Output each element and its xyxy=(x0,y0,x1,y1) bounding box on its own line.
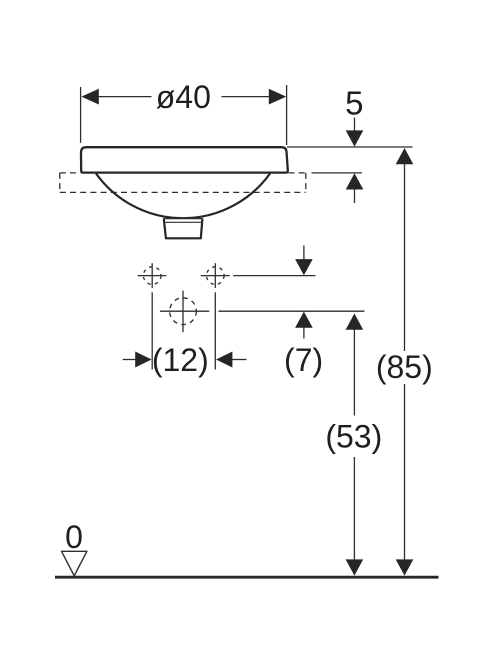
reference line at faucet hole axis xyxy=(233,275,315,277)
datum triangle xyxy=(62,551,87,576)
basin bowl xyxy=(96,174,270,219)
dimension line (85) upper segment with up arrow xyxy=(396,148,414,351)
extension line right of dimension (12) xyxy=(214,292,216,369)
drain outlet xyxy=(163,219,203,239)
basin rim xyxy=(81,147,288,172)
svg-text:0: 0 xyxy=(65,519,83,555)
countertop dashed outline xyxy=(60,173,306,193)
arrow up for dimension 7 (lower, stem) xyxy=(295,312,313,339)
dimension line (53) upper segment with up arrow xyxy=(346,314,364,416)
svg-text:(7): (7) xyxy=(284,342,323,378)
extension line right of dimension o40 xyxy=(286,85,288,145)
label 5 xyxy=(345,85,363,122)
label (53) xyxy=(325,419,382,455)
extension line left of dimension (12) xyxy=(151,292,153,369)
dimension line o40 right segment xyxy=(222,96,270,98)
reference line at countertop level xyxy=(312,172,363,174)
dimension line o40 left segment xyxy=(98,96,152,98)
arrow up for dimension 5 (lower, stem) xyxy=(346,173,364,203)
dimension line (53) lower segment with down arrow xyxy=(346,457,364,576)
arrow down for dimension 7 (stem) xyxy=(295,245,313,275)
label (12) xyxy=(152,342,209,378)
arrow left for dimension (12) (stem) xyxy=(216,352,247,368)
overflow hole (large dashed circle with crosshair) xyxy=(160,291,209,333)
svg-text:(12): (12) xyxy=(152,342,209,378)
faucet hole right (crosshair with dashed circle) xyxy=(201,263,230,288)
label (85) xyxy=(376,349,433,385)
arrowhead left of o40 xyxy=(81,89,98,105)
svg-text:5: 5 xyxy=(345,85,363,122)
reference line at overflow axis (53 level) xyxy=(219,310,365,312)
faucet hole left (crosshair with dashed circle) xyxy=(138,263,167,288)
svg-text:(85): (85) xyxy=(376,349,433,385)
reference line at rim top level xyxy=(287,146,413,148)
label 0 (datum) xyxy=(65,519,83,555)
arrow right for dimension (12) (stem) xyxy=(123,352,152,368)
ground line xyxy=(55,576,439,579)
label (7) xyxy=(284,342,323,378)
dimension line (85) lower segment with down arrow xyxy=(396,384,414,576)
arrowhead right of o40 xyxy=(269,89,286,105)
label o40 xyxy=(156,79,211,115)
svg-text:ø40: ø40 xyxy=(156,79,211,115)
arrow down for dimension 5 (stem) xyxy=(346,118,364,147)
svg-text:(53): (53) xyxy=(325,419,382,455)
extension line left of dimension o40 xyxy=(80,87,82,143)
